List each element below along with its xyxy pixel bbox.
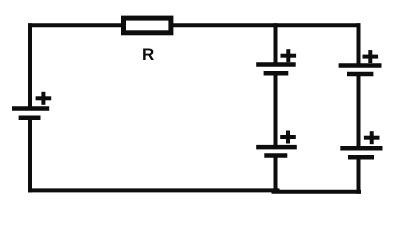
svg-text:R: R: [142, 45, 154, 64]
